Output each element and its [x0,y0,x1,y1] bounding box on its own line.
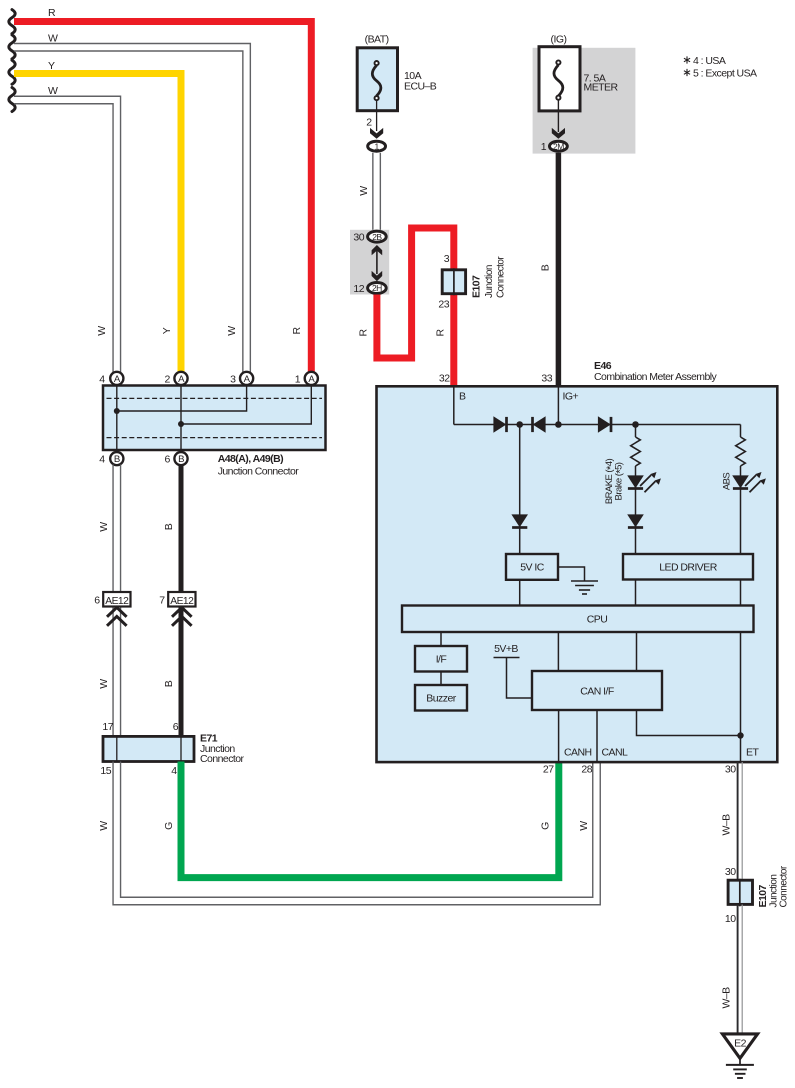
svg-text:Combination Meter Assembly: Combination Meter Assembly [594,371,718,383]
svg-text:3: 3 [444,253,450,265]
svg-text:30: 30 [725,764,736,776]
svg-text:W: W [226,326,238,336]
svg-text:4: 4 [99,374,105,386]
svg-text:Junction Connector: Junction Connector [218,466,300,478]
svg-text:7: 7 [159,595,165,607]
svg-text:W: W [96,326,108,336]
svg-text:Brake (*5): Brake (*5) [614,462,627,500]
svg-text:B: B [114,454,120,465]
svg-text:W: W [48,85,58,97]
svg-text:Connector: Connector [779,865,790,907]
svg-text:W: W [98,821,110,831]
svg-text:W–B: W–B [721,814,733,836]
svg-text:32: 32 [439,373,450,385]
svg-text:4 : USA: 4 : USA [693,55,726,67]
svg-text:I/F: I/F [436,654,447,666]
svg-text:CAN I/F: CAN I/F [580,686,614,698]
svg-text:1: 1 [541,141,547,153]
svg-text:12: 12 [353,283,364,295]
svg-text:Connector: Connector [200,753,245,765]
svg-text:27: 27 [543,764,554,776]
svg-text:30: 30 [725,866,736,878]
svg-text:B: B [163,680,175,687]
svg-text:R: R [48,7,56,19]
svg-text:E107: E107 [470,275,482,298]
svg-text:17: 17 [102,721,113,733]
svg-text:33: 33 [541,373,552,385]
svg-text:5 : Except USA: 5 : Except USA [693,67,757,79]
svg-text:4: 4 [99,454,105,466]
svg-text:R: R [435,329,447,337]
svg-text:LED DRIVER: LED DRIVER [659,562,717,574]
svg-text:R: R [291,327,303,335]
svg-text:B: B [540,264,552,271]
svg-text:G: G [540,822,552,830]
svg-text:30: 30 [353,232,364,244]
svg-text:METER: METER [584,82,619,94]
svg-text:ABS: ABS [722,473,733,491]
svg-text:E107: E107 [757,884,769,907]
svg-text:4: 4 [171,765,177,777]
svg-text:ET: ET [746,747,759,759]
svg-text:3: 3 [230,374,236,386]
svg-text:5V+B: 5V+B [494,643,518,655]
svg-text:Junction: Junction [484,265,495,298]
svg-text:CANL: CANL [602,747,629,759]
svg-text:5V IC: 5V IC [520,562,544,574]
svg-text:Y: Y [48,60,55,72]
svg-text:W: W [98,522,110,532]
svg-text:6: 6 [165,454,171,466]
svg-text:28: 28 [581,764,592,776]
svg-text:IG+: IG+ [563,391,579,403]
svg-text:2: 2 [366,117,372,129]
svg-text:15: 15 [100,765,111,777]
svg-text:R: R [358,329,370,337]
svg-text:2H: 2H [372,283,382,293]
svg-text:2: 2 [165,374,171,386]
svg-text:1: 1 [295,374,301,386]
svg-text:(IG): (IG) [551,34,567,46]
svg-text:W–B: W–B [721,987,733,1009]
svg-text:W: W [98,679,110,689]
svg-text:B: B [163,523,175,530]
svg-text:B: B [178,454,184,465]
svg-text:B: B [459,391,466,403]
svg-text:CPU: CPU [587,614,608,626]
svg-text:Buzzer: Buzzer [426,693,456,705]
svg-text:6: 6 [94,595,100,607]
svg-text:W: W [48,33,58,45]
svg-text:W: W [578,821,590,831]
svg-text:E2: E2 [734,1038,746,1050]
svg-text:10: 10 [725,913,736,925]
svg-text:Connector: Connector [496,256,507,298]
svg-text:Y: Y [161,327,173,334]
svg-text:AE12: AE12 [170,596,194,607]
svg-text:A48(A), A49(B): A48(A), A49(B) [218,453,283,465]
svg-text:23: 23 [438,299,449,311]
svg-text:AE12: AE12 [105,596,129,607]
svg-text:2B: 2B [372,232,382,242]
svg-text:ECU–B: ECU–B [404,81,437,93]
svg-text:W: W [358,186,370,196]
svg-text:CANH: CANH [564,747,592,759]
svg-text:6: 6 [173,721,179,733]
svg-text:2M: 2M [553,142,564,152]
svg-text:(BAT): (BAT) [365,34,389,46]
svg-text:G: G [163,822,175,830]
